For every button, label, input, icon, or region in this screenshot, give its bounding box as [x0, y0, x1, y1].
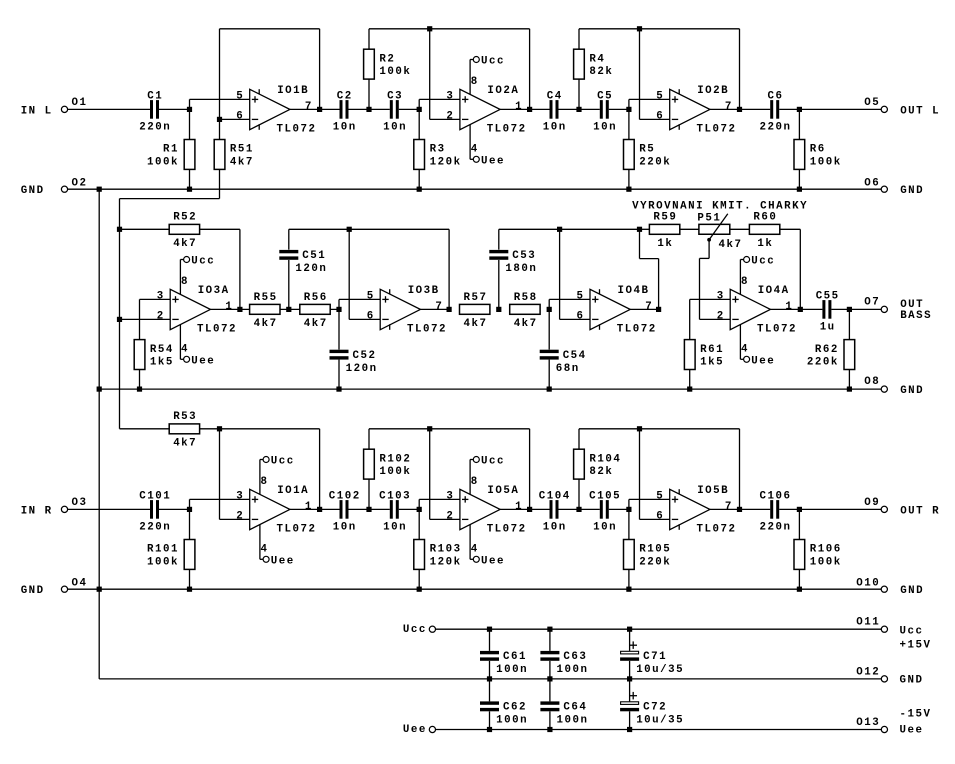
capacitor C104 [550, 500, 559, 519]
svg-text:O5: O5 [864, 97, 880, 109]
capacitor C72 electrolytic [629, 679, 631, 702]
resistor R58 [510, 304, 540, 314]
capacitor C52 [338, 309, 340, 349]
junction rail-R52 [117, 227, 122, 232]
feedback wire stage1 [220, 428, 320, 430]
svg-text:Uee: Uee [900, 724, 924, 736]
svg-text:2: 2 [717, 310, 725, 322]
GND wire [68, 588, 882, 590]
junction output node [797, 107, 802, 112]
wire to +input [189, 99, 191, 109]
terminal O5 [881, 106, 887, 112]
svg-text:TL072: TL072 [617, 324, 657, 336]
junction R56 out [336, 307, 341, 312]
junction GND nodes [97, 587, 102, 592]
svg-text:O13: O13 [856, 717, 880, 729]
capacitor C51 [288, 260, 290, 310]
svg-text:C72: C72 [643, 702, 667, 714]
svg-text:O2: O2 [72, 177, 88, 189]
svg-text:Ucc: Ucc [191, 256, 215, 268]
wire IO3B output [420, 308, 449, 310]
op-amp IO5B [670, 489, 710, 529]
svg-text:10n: 10n [543, 122, 567, 134]
wire P51-R60 [730, 228, 750, 230]
wire IO4B output [630, 308, 658, 310]
junction mid caps [366, 107, 371, 112]
svg-text:100n: 100n [496, 715, 528, 727]
svg-text:7: 7 [725, 501, 733, 513]
resistor R3 [418, 109, 420, 139]
svg-text:Uee: Uee [271, 556, 295, 568]
svg-text:4: 4 [471, 144, 479, 156]
svg-text:Uee: Uee [191, 356, 215, 368]
svg-text:R103: R103 [430, 544, 462, 556]
junction input node [187, 107, 192, 112]
feedback wire stage2 [369, 28, 530, 30]
svg-text:O6: O6 [864, 177, 880, 189]
op-amp IO3A [170, 289, 210, 329]
junction R58 out [547, 307, 552, 312]
svg-text:Ucc: Ucc [481, 56, 505, 68]
op-amp IO5A [460, 489, 500, 529]
svg-text:3: 3 [157, 290, 165, 302]
resistor R103 [418, 509, 420, 539]
svg-text:R105: R105 [639, 544, 671, 556]
wire R51 to bass summing rail [219, 169, 221, 198]
junction rail -input IO3A [117, 317, 122, 322]
svg-text:C53: C53 [512, 250, 536, 262]
svg-text:O7: O7 [864, 296, 880, 308]
resistor R105 [628, 509, 630, 539]
svg-text:O1: O1 [72, 97, 88, 109]
svg-text:1: 1 [515, 501, 523, 513]
svg-text:TL072: TL072 [277, 124, 317, 136]
svg-text:Uee: Uee [481, 556, 505, 568]
junction GND nodes [97, 187, 102, 192]
svg-text:C55: C55 [816, 291, 840, 303]
wire GND power [99, 678, 881, 680]
junction IO3A output [237, 307, 242, 312]
wire to +input IO4B [548, 299, 550, 309]
resistor R54 [139, 299, 141, 339]
svg-text:C104: C104 [539, 491, 571, 503]
op-amp IO4A [730, 289, 770, 329]
terminal O2 [61, 186, 67, 192]
svg-text:C1: C1 [147, 91, 163, 103]
wire stage1 output [290, 508, 419, 510]
svg-text:R102: R102 [379, 453, 411, 465]
wire IN IN L [68, 108, 190, 110]
junction IO4A output [798, 307, 803, 312]
svg-text:Uee: Uee [403, 724, 427, 736]
svg-text:100n: 100n [557, 715, 589, 727]
svg-text:R56: R56 [304, 292, 328, 304]
svg-text:100k: 100k [810, 556, 842, 568]
svg-text:1u: 1u [820, 322, 836, 334]
terminal O12 [881, 676, 887, 682]
svg-text:3: 3 [446, 490, 454, 502]
svg-text:6: 6 [367, 310, 375, 322]
svg-text:180n: 180n [505, 263, 537, 275]
op-amp IO3B [380, 289, 420, 329]
junction bass output node [847, 307, 852, 312]
svg-text:P51: P51 [697, 212, 721, 224]
svg-text:1k5: 1k5 [700, 357, 724, 369]
svg-text:4k7: 4k7 [514, 318, 538, 330]
svg-text:82k: 82k [589, 66, 613, 78]
terminal O4 [61, 586, 67, 592]
capacitor C6 [770, 100, 779, 119]
feedback wire stage2 [369, 428, 530, 430]
svg-text:Uee: Uee [751, 356, 775, 368]
svg-text:IN L: IN L [21, 105, 53, 117]
resistor R62 [848, 309, 850, 339]
svg-text:1k: 1k [757, 238, 773, 250]
svg-text:4k7: 4k7 [173, 238, 197, 250]
svg-text:IN R: IN R [21, 505, 53, 517]
svg-text:68n: 68n [556, 363, 580, 375]
svg-text:O8: O8 [864, 376, 880, 388]
svg-text:220k: 220k [807, 357, 839, 369]
wire R52 left [120, 228, 170, 230]
wire R60 to IO4A output [780, 228, 801, 230]
svg-text:220n: 220n [139, 522, 171, 534]
svg-text:1: 1 [515, 101, 523, 113]
svg-text:TL072: TL072 [697, 124, 737, 136]
svg-text:TL072: TL072 [407, 324, 447, 336]
resistor R59 [640, 228, 650, 230]
junction stage3 output [737, 107, 742, 112]
svg-text:4: 4 [471, 544, 479, 556]
svg-text:+15V: +15V [900, 640, 932, 652]
svg-text:100k: 100k [147, 156, 179, 168]
resistor R106 [798, 509, 800, 539]
svg-text:120k: 120k [430, 156, 462, 168]
svg-text:GND: GND [900, 585, 924, 597]
svg-text:6: 6 [656, 510, 664, 522]
resistor R53 [120, 428, 170, 430]
svg-text:C63: C63 [563, 651, 587, 663]
svg-text:C6: C6 [768, 91, 784, 103]
svg-text:O11: O11 [856, 617, 880, 629]
wire IO4A output [770, 308, 881, 310]
svg-text:8: 8 [741, 276, 749, 288]
wire stage2 output [500, 508, 629, 510]
resistor R55 [250, 304, 280, 314]
junction stage1 output [317, 507, 322, 512]
svg-text:220n: 220n [139, 122, 171, 134]
svg-text:10n: 10n [593, 522, 617, 534]
op-amp IO2B [670, 89, 710, 129]
svg-text:R53: R53 [173, 411, 197, 423]
terminal Uee [429, 726, 435, 732]
terminal O8 [881, 386, 887, 392]
wire stage3 output [710, 108, 881, 110]
resistor R51 [219, 119, 221, 139]
wire IO3A output [210, 308, 339, 310]
svg-text:100k: 100k [810, 156, 842, 168]
wire stage2 output [500, 108, 629, 110]
junction IO3B output [447, 307, 452, 312]
svg-text:220n: 220n [760, 522, 792, 534]
svg-text:C3: C3 [387, 91, 403, 103]
svg-text:10n: 10n [593, 122, 617, 134]
resistor R5 [628, 109, 630, 139]
svg-text:IO1A: IO1A [277, 485, 309, 497]
svg-text:BASS: BASS [900, 310, 932, 322]
capacitor C105 [600, 500, 609, 519]
svg-text:C106: C106 [760, 491, 792, 503]
resistor R104 [578, 429, 580, 449]
svg-text:100k: 100k [379, 66, 411, 78]
junction R57-R58 [496, 307, 501, 312]
junction mid caps [366, 507, 371, 512]
svg-text:4k7: 4k7 [173, 437, 197, 449]
svg-text:6: 6 [577, 310, 585, 322]
svg-text:O12: O12 [856, 666, 880, 678]
wire -input IO3A [120, 318, 171, 320]
junction stage3 output [737, 507, 742, 512]
svg-text:2: 2 [446, 110, 454, 122]
svg-text:4k7: 4k7 [719, 239, 743, 251]
junction IO4B output [656, 307, 661, 312]
capacitor C64 [549, 679, 551, 702]
wire stage1 output [290, 108, 419, 110]
svg-text:220k: 220k [639, 156, 671, 168]
svg-text:4k7: 4k7 [464, 318, 488, 330]
svg-text:O3: O3 [72, 497, 88, 509]
GND wire bass [99, 388, 881, 390]
svg-text:GND: GND [21, 585, 45, 597]
svg-text:VYROVNANI KMIT. CHARKY: VYROVNANI KMIT. CHARKY [632, 200, 808, 212]
svg-text:5: 5 [577, 290, 585, 302]
svg-text:O10: O10 [856, 577, 880, 589]
resistor R1 [189, 109, 191, 139]
junction stage2 output [527, 507, 532, 512]
svg-text:R4: R4 [589, 53, 605, 65]
svg-text:4: 4 [181, 344, 189, 356]
wire to +input [189, 499, 191, 509]
svg-text:GND: GND [900, 185, 924, 197]
svg-text:10u/35: 10u/35 [636, 715, 684, 727]
svg-text:R61: R61 [700, 344, 724, 356]
svg-text:100n: 100n [496, 664, 528, 676]
wire R59-P51 [680, 228, 699, 230]
svg-text:7: 7 [305, 101, 313, 113]
op-amp IO1A [250, 489, 290, 529]
resistor R2 [368, 29, 370, 49]
capacitor C106 [770, 500, 779, 519]
svg-text:4k7: 4k7 [230, 156, 254, 168]
svg-text:7: 7 [645, 301, 653, 313]
svg-text:2: 2 [236, 510, 244, 522]
svg-text:OUT L: OUT L [900, 105, 940, 117]
svg-text:C5: C5 [597, 91, 613, 103]
svg-text:C2: C2 [337, 91, 353, 103]
resistor R6 [798, 109, 800, 139]
svg-text:10n: 10n [543, 522, 567, 534]
svg-text:4: 4 [741, 344, 749, 356]
svg-text:100k: 100k [379, 466, 411, 478]
capacitor C54 [548, 309, 550, 349]
svg-text:TL072: TL072 [697, 524, 737, 536]
resistor R60 [749, 224, 779, 234]
junction mid caps 2 [576, 507, 581, 512]
svg-text:10n: 10n [383, 522, 407, 534]
wire to +input stage2 [418, 499, 420, 509]
P51 wiper junction [707, 238, 711, 242]
svg-text:R62: R62 [815, 344, 839, 356]
svg-text:C51: C51 [302, 250, 326, 262]
resistor R52 [169, 224, 199, 234]
capacitor C61 [489, 629, 491, 651]
junction mid caps 2 [576, 107, 581, 112]
svg-text:120n: 120n [295, 263, 327, 275]
svg-text:5: 5 [656, 90, 664, 102]
svg-text:Ucc: Ucc [481, 456, 505, 468]
svg-text:R57: R57 [464, 292, 488, 304]
capacitor C71 electrolytic [629, 629, 631, 651]
svg-text:C105: C105 [589, 491, 621, 503]
capacitor C55 [822, 300, 831, 319]
svg-text:100k: 100k [147, 556, 179, 568]
svg-text:R55: R55 [254, 292, 278, 304]
svg-text:Ucc: Ucc [751, 256, 775, 268]
svg-text:C61: C61 [503, 651, 527, 663]
wire -input [220, 118, 250, 120]
wire -input [219, 429, 221, 520]
terminal O7 [881, 306, 887, 312]
svg-text:Ucc: Ucc [271, 456, 295, 468]
op-amp IO4B [590, 289, 630, 329]
resistor R101 [189, 509, 191, 539]
svg-text:R51: R51 [230, 144, 254, 156]
wire R52 to IO3A output [200, 228, 240, 230]
svg-text:TL072: TL072 [487, 524, 527, 536]
svg-text:8: 8 [471, 476, 479, 488]
capacitor C101 [150, 500, 159, 519]
svg-text:IO3A: IO3A [198, 285, 230, 297]
feedback wire stage3 [579, 428, 740, 430]
svg-text:1: 1 [305, 501, 313, 513]
junction stage3 +in node [626, 107, 631, 112]
svg-text:1: 1 [225, 301, 233, 313]
svg-text:IO1B: IO1B [277, 85, 309, 97]
GND rail vertical [98, 189, 100, 679]
capacitor C4 [550, 100, 559, 119]
svg-text:R3: R3 [430, 144, 446, 156]
junction stage1 output [317, 107, 322, 112]
svg-text:TL072: TL072 [757, 324, 797, 336]
svg-text:2: 2 [446, 510, 454, 522]
junction R53 feedback node [217, 426, 222, 431]
svg-text:2: 2 [157, 310, 165, 322]
svg-text:OUT R: OUT R [900, 505, 940, 517]
junction feedback to R59 [637, 227, 642, 232]
svg-text:R1: R1 [163, 144, 179, 156]
svg-text:1k5: 1k5 [150, 357, 174, 369]
wire Uee [436, 729, 882, 731]
svg-text:6: 6 [236, 110, 244, 122]
feedback wire IO3B [289, 228, 449, 230]
svg-text:5: 5 [656, 490, 664, 502]
svg-text:220k: 220k [639, 556, 671, 568]
svg-text:3: 3 [236, 490, 244, 502]
svg-text:8: 8 [471, 76, 479, 88]
terminal O11 [881, 626, 887, 632]
wire wiper to -input IO4A [708, 240, 710, 259]
capacitor C1 [150, 100, 159, 119]
svg-text:R101: R101 [147, 544, 179, 556]
svg-text:C64: C64 [563, 702, 587, 714]
junction stage2 +in node [417, 507, 422, 512]
svg-text:4k7: 4k7 [254, 318, 278, 330]
svg-text:-15V: -15V [900, 709, 932, 721]
svg-text:IO4A: IO4A [758, 285, 790, 297]
svg-text:10n: 10n [333, 122, 357, 134]
svg-text:3: 3 [446, 90, 454, 102]
svg-text:C62: C62 [503, 702, 527, 714]
resistor R57 [460, 304, 490, 314]
resistor R4 [578, 29, 580, 49]
resistor R61 [689, 299, 691, 339]
op-amp IO2A [460, 89, 500, 129]
svg-text:220n: 220n [760, 122, 792, 134]
svg-text:OUT: OUT [900, 299, 924, 311]
svg-text:4: 4 [261, 544, 269, 556]
feedback wire stage1 [219, 29, 221, 120]
wire to +input IO3B [338, 299, 340, 309]
svg-text:R58: R58 [514, 292, 538, 304]
junction dots power rails [487, 627, 492, 632]
svg-text:1k: 1k [657, 238, 673, 250]
terminal O9 [881, 506, 887, 512]
svg-text:R59: R59 [653, 212, 677, 224]
svg-text:C101: C101 [139, 491, 171, 503]
svg-text:C71: C71 [643, 651, 667, 663]
svg-text:IO2B: IO2B [697, 85, 729, 97]
svg-text:R106: R106 [810, 544, 842, 556]
potentiometer P51 [699, 224, 730, 234]
junction stage2 output [527, 107, 532, 112]
svg-text:8: 8 [261, 476, 269, 488]
capacitor C62 [489, 679, 491, 702]
capacitor C102 [340, 500, 349, 519]
capacitor C103 [390, 500, 399, 519]
terminal Ucc [429, 626, 435, 632]
svg-text:TL072: TL072 [487, 124, 527, 136]
terminal O1 [61, 106, 67, 112]
svg-text:C103: C103 [379, 491, 411, 503]
svg-text:GND: GND [21, 185, 45, 197]
wire +input IO4A [690, 298, 731, 300]
capacitor C63 [549, 629, 551, 651]
svg-text:R104: R104 [589, 453, 621, 465]
svg-text:7: 7 [725, 101, 733, 113]
wire stage3 output [710, 508, 881, 510]
svg-text:GND: GND [900, 675, 924, 687]
capacitor C53 [498, 260, 500, 310]
svg-text:120k: 120k [430, 556, 462, 568]
resistor R102 [368, 429, 370, 449]
svg-text:O9: O9 [864, 497, 880, 509]
feedback wire IO4B [499, 228, 640, 230]
svg-text:6: 6 [656, 110, 664, 122]
svg-text:1: 1 [785, 301, 793, 313]
junction stage2 +in node [417, 107, 422, 112]
svg-text:GND: GND [900, 385, 924, 397]
svg-text:TL072: TL072 [197, 324, 237, 336]
